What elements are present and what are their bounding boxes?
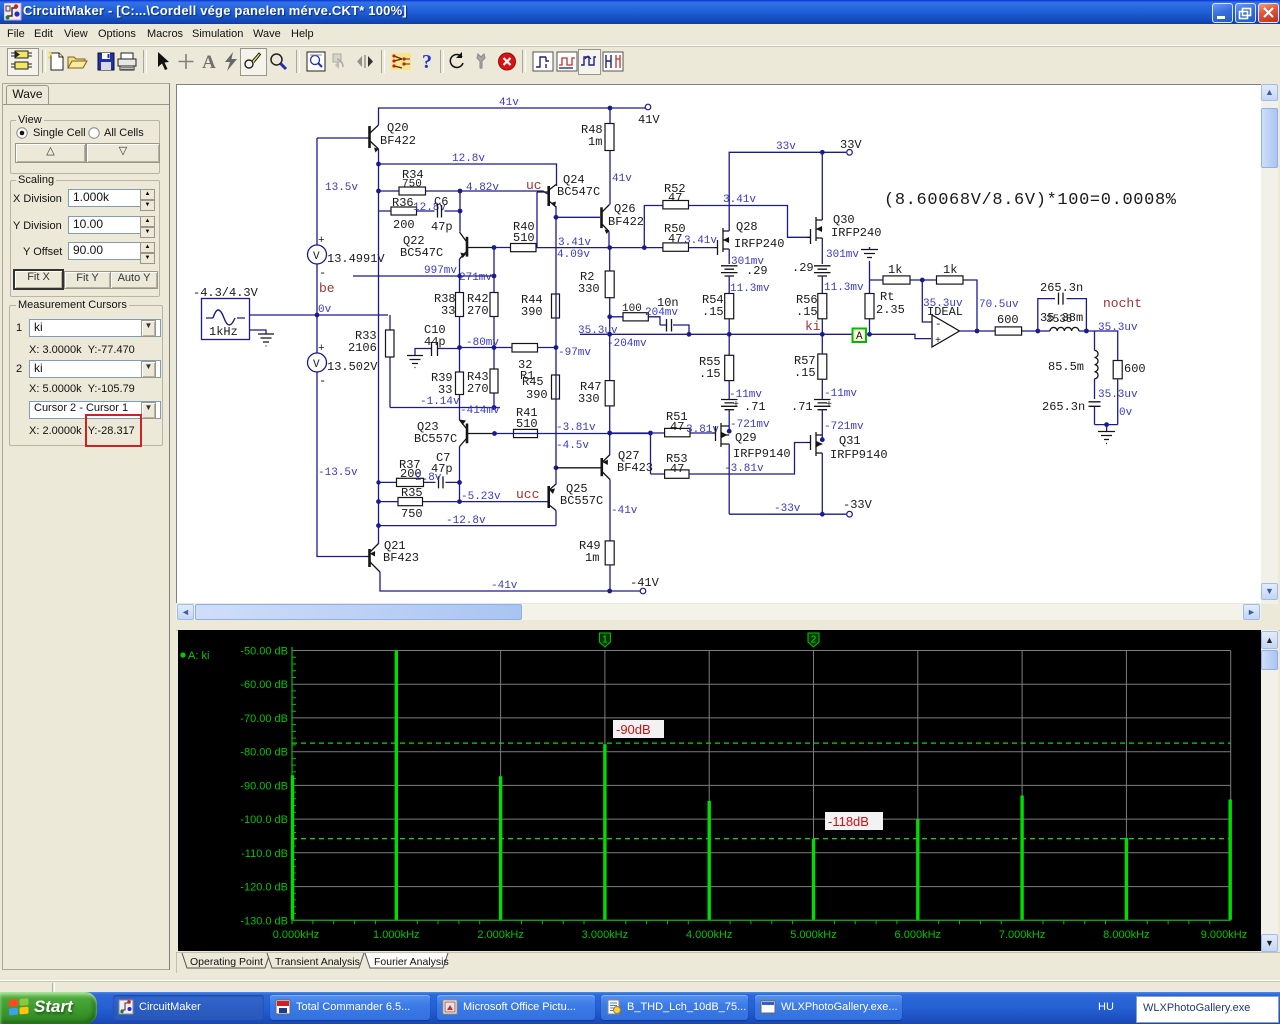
FFT gray gridlines <box>292 651 1231 921</box>
svg-text:A: ki: A: ki <box>188 650 209 662</box>
svg-text:33: 33 <box>441 304 455 318</box>
svg-text:0.000kHz: 0.000kHz <box>273 929 319 941</box>
svg-text:V: V <box>313 251 320 263</box>
label 0v <box>318 304 332 316</box>
label -12.8v <box>446 515 486 527</box>
svg-text:0v: 0v <box>1119 407 1133 419</box>
node 41v/R48 <box>608 106 613 111</box>
svg-text:390: 390 <box>526 388 548 402</box>
svg-text:-41V: -41V <box>630 576 660 590</box>
wire: Q22 base vertical to R42 <box>493 248 495 293</box>
label -1.14v <box>420 396 460 408</box>
wire: R36 C6 row <box>379 210 461 212</box>
wire: output to load <box>1086 331 1117 361</box>
svg-text:33V: 33V <box>840 138 862 152</box>
wire: Q22 emitter to R38 <box>459 259 461 293</box>
wire: R38 to -80mv row <box>459 317 461 373</box>
svg-text:47: 47 <box>670 462 684 476</box>
svg-text:44p: 44p <box>424 335 446 349</box>
start button <box>0 992 97 1024</box>
svg-text:600: 600 <box>997 313 1019 327</box>
node Q20 emitter <box>376 162 381 167</box>
node R34 left <box>376 189 381 194</box>
wire: Q25 collector down <box>555 511 557 526</box>
svg-text:4.09v: 4.09v <box>557 249 590 261</box>
svg-text:-: - <box>319 374 326 388</box>
node ki R54 <box>727 332 732 337</box>
svg-text:390: 390 <box>521 305 543 319</box>
svg-text:265.3n: 265.3n <box>1042 400 1085 414</box>
node C7 right <box>457 480 462 485</box>
resistor R55 .15 <box>699 355 734 399</box>
svg-text:-1.14v: -1.14v <box>420 396 460 408</box>
wire: Q23 collector down to C7 node <box>459 447 461 502</box>
svg-text:+: + <box>733 400 739 411</box>
node Q24 emitter / Q26 base <box>554 215 559 220</box>
svg-text:5.000kHz: 5.000kHz <box>790 929 836 941</box>
wire: input source to node be <box>250 314 389 316</box>
wire: Q31 drain down and -33v rail <box>729 453 846 514</box>
capacitor 10n <box>657 296 679 332</box>
svg-text:R36: R36 <box>392 196 414 210</box>
battery .29 Q28 <box>721 256 768 294</box>
svg-text:7.000kHz: 7.000kHz <box>999 929 1045 941</box>
transistor Q25 BC557C <box>548 482 604 511</box>
svg-text:35.3uv: 35.3uv <box>578 325 618 337</box>
resistor 1k feedback <box>937 263 964 284</box>
transistor Q24 BC547C <box>537 173 600 207</box>
svg-text:301mv: 301mv <box>826 249 859 261</box>
node R35 left <box>376 499 381 504</box>
svg-text:-33v: -33v <box>774 503 801 515</box>
svg-text:-33V: -33V <box>843 498 873 512</box>
svg-text:IRFP9140: IRFP9140 <box>830 448 888 462</box>
svg-text:-41v: -41v <box>611 505 638 517</box>
svg-text:1.000kHz: 1.000kHz <box>373 929 419 941</box>
wire: 1k feedback row <box>870 280 978 331</box>
wire: Q25 emitter to node <box>555 468 557 485</box>
resistor R42 270 <box>467 292 498 318</box>
mosfet Q29 IRFP9140 <box>712 423 791 461</box>
label -3.81v gate2 <box>724 463 764 475</box>
resistor R1 32 <box>512 344 556 384</box>
svg-text:Q20: Q20 <box>387 121 409 135</box>
wire: 33v rail <box>729 152 846 225</box>
svg-text:.15: .15 <box>702 305 724 319</box>
node ki rail x610 <box>607 332 612 337</box>
mosfet Q31 IRFP9140 <box>807 432 888 462</box>
FFT y axis minor ticks <box>292 657 296 913</box>
svg-text:10n: 10n <box>657 296 679 310</box>
svg-text:BC547C: BC547C <box>400 246 443 260</box>
svg-text:330: 330 <box>578 282 600 296</box>
label 35.3uv left <box>578 325 618 337</box>
node A marker <box>853 329 867 344</box>
svg-text:Operating Point: Operating Point <box>190 956 263 968</box>
svg-text:47p: 47p <box>431 220 453 234</box>
wire: Q28 terminals <box>728 225 730 264</box>
svg-text:BF422: BF422 <box>608 215 644 229</box>
svg-text:3.41v: 3.41v <box>684 235 717 247</box>
svg-text:+: + <box>826 400 832 411</box>
terminal -41V <box>630 576 660 594</box>
transistor Q26 BF422 <box>602 202 645 234</box>
label -97mv <box>558 347 591 359</box>
wire: C7 row <box>379 481 460 483</box>
resistor R41 510 <box>495 406 651 438</box>
label 0v load <box>1119 407 1133 419</box>
svg-text:-90.00 dB: -90.00 dB <box>240 780 288 792</box>
capacitor 265.3n top <box>1038 281 1087 331</box>
wire: Q24 base from R40 node <box>536 192 538 248</box>
label 11.3mv Q28 <box>730 283 770 295</box>
label 33v rail <box>776 141 796 153</box>
svg-text:C6: C6 <box>434 195 448 209</box>
svg-text:1k: 1k <box>888 263 902 277</box>
wire: opamp output <box>960 330 1038 332</box>
wire: ki output rail <box>580 334 931 338</box>
battery .71 Q31 <box>791 388 857 440</box>
resistor R47 330 <box>578 334 614 433</box>
svg-text:V: V <box>313 359 320 371</box>
svg-text:+: + <box>318 343 325 355</box>
wire: load bottom <box>1095 425 1118 431</box>
svg-text:510: 510 <box>513 231 535 245</box>
svg-text:R45: R45 <box>522 375 544 389</box>
label -33v rail <box>774 503 801 515</box>
svg-text:-70.00 dB: -70.00 dB <box>240 713 288 725</box>
svg-text:-: - <box>319 266 326 280</box>
svg-text:1m: 1m <box>585 551 599 565</box>
wire: Q29 drain down <box>728 444 730 514</box>
svg-text:Transient Analysis: Transient Analysis <box>275 956 360 968</box>
label -721mv Q29 <box>730 419 770 431</box>
svg-text:-11mv: -11mv <box>824 388 857 400</box>
op-amp U1 IDEAL <box>927 305 963 347</box>
label -13.5v <box>318 467 358 479</box>
node 997mv junction <box>457 274 461 278</box>
wire: Q24 collector to 12.8v <box>556 185 558 187</box>
node ki R56 <box>820 332 825 337</box>
svg-text:997mv: 997mv <box>424 265 457 277</box>
node -414mv <box>492 405 497 410</box>
node Q27 base / Q25 emitter <box>554 465 559 470</box>
FFT x axis labels <box>273 929 1247 941</box>
FFT spectrum bars <box>293 651 1231 920</box>
svg-text:33v: 33v <box>776 141 796 153</box>
svg-text:-100.0 dB: -100.0 dB <box>240 814 288 826</box>
svg-text:1k: 1k <box>943 263 957 277</box>
svg-text:.15: .15 <box>794 366 816 380</box>
svg-text:13.4991V: 13.4991V <box>327 252 385 266</box>
FFT cursor flag 1 <box>599 633 610 647</box>
node load bottom <box>1104 422 1109 427</box>
resistor R40 510 <box>511 220 537 252</box>
node -80mv b <box>492 345 497 350</box>
svg-text:-: - <box>935 319 942 331</box>
svg-text:-118dB: -118dB <box>828 814 869 829</box>
svg-text:271mv: 271mv <box>459 272 492 284</box>
label 204mv <box>645 307 678 319</box>
resistor R54 .15 <box>702 293 734 355</box>
wire: -414mv row <box>390 407 500 409</box>
wire: Q20 base row <box>317 137 366 139</box>
node R37 left <box>376 480 380 484</box>
resistor Rt 2.35 <box>865 280 905 334</box>
svg-text:4.000kHz: 4.000kHz <box>686 929 732 941</box>
svg-text:-4.5v: -4.5v <box>556 440 589 452</box>
svg-text:265.3n: 265.3n <box>1040 281 1083 295</box>
svg-text:-4.3/4.3V: -4.3/4.3V <box>193 286 259 300</box>
label 271mv <box>459 272 492 284</box>
node LC left <box>1035 329 1040 334</box>
svg-text:510: 510 <box>516 417 538 431</box>
wire: bias vertical x378.5 <box>378 164 380 526</box>
svg-text:A: A <box>202 52 216 72</box>
resistor R52 47 <box>663 182 689 209</box>
svg-text:35.3uv: 35.3uv <box>923 298 963 310</box>
svg-text:1kHz: 1kHz <box>209 325 238 339</box>
resistor R37 200 <box>397 458 424 487</box>
svg-text:.15: .15 <box>699 367 721 381</box>
svg-text:nocht: nocht <box>1103 296 1142 311</box>
svg-text:750: 750 <box>401 507 423 521</box>
wire: Q22 collector vertical <box>459 191 461 232</box>
resistor R33 2106 <box>348 315 394 408</box>
svg-text:-97mv: -97mv <box>558 347 591 359</box>
svg-text:11.3mv: 11.3mv <box>730 283 770 295</box>
resistor R39 33 <box>431 371 464 397</box>
node Q31 source <box>820 437 825 442</box>
battery .29 Q30 <box>792 249 859 294</box>
svg-text:BC547C: BC547C <box>557 185 600 199</box>
label net be <box>319 281 335 296</box>
transistor Q21 BF423 <box>366 539 419 572</box>
label 12.8v at R36 <box>413 202 446 214</box>
label -721mv Q31 <box>824 421 864 433</box>
ground for source <box>250 330 275 346</box>
label 35.3uv load <box>1098 389 1138 401</box>
svg-text:BC557C: BC557C <box>414 432 457 446</box>
node -80mv a <box>457 345 462 350</box>
label net uc <box>526 178 542 193</box>
label -41v rail <box>491 580 518 592</box>
capacitor C6 47p <box>431 195 453 234</box>
resistor R45 390 <box>522 375 560 402</box>
node 271mv junction <box>492 274 497 279</box>
label 3.41v at R52 <box>723 194 756 206</box>
transistor Q20 BF422 <box>366 121 416 153</box>
svg-text:Rt: Rt <box>880 290 894 304</box>
svg-text:-5.23v: -5.23v <box>461 491 501 503</box>
wire: ucc row <box>379 501 548 503</box>
svg-text:Q26: Q26 <box>614 202 636 216</box>
label 11.3mv Q30 <box>824 282 864 294</box>
svg-text:0v: 0v <box>318 304 332 316</box>
battery .71 Q29 <box>721 389 766 431</box>
wire: R52 branch <box>644 206 807 248</box>
node 4.82v <box>458 189 463 194</box>
svg-text:3.41v: 3.41v <box>723 194 756 206</box>
resistor R44 390 <box>521 293 560 319</box>
node output 1k <box>975 329 980 334</box>
svg-text:.71: .71 <box>744 400 766 414</box>
label net ucc <box>516 487 539 502</box>
svg-text:13.502V: 13.502V <box>327 360 378 374</box>
label -204mv <box>607 338 647 350</box>
resistor R53 47 <box>665 443 807 479</box>
svg-text:2.8v: 2.8v <box>415 472 442 484</box>
label 12.8v at C7 <box>415 472 442 484</box>
node R51 branch <box>648 431 653 436</box>
wire: 997mv row <box>353 275 494 277</box>
svg-text:Q29: Q29 <box>735 431 757 445</box>
svg-text:be: be <box>319 281 335 296</box>
node -97mv <box>554 345 559 350</box>
wire: Q21 emitter up <box>378 526 380 544</box>
svg-text:41v: 41v <box>499 97 519 109</box>
svg-text:R35: R35 <box>401 486 423 500</box>
svg-text:3.81v: 3.81v <box>686 424 719 436</box>
node -33v <box>820 512 825 517</box>
svg-text:2.000kHz: 2.000kHz <box>477 929 523 941</box>
resistor R50 47 <box>663 222 689 251</box>
wire: 100/10n branch <box>610 317 689 335</box>
label 4.09v <box>557 249 590 261</box>
svg-text:2106: 2106 <box>348 341 377 355</box>
svg-text:?: ? <box>422 51 432 72</box>
svg-text:85.5m: 85.5m <box>1048 360 1084 374</box>
svg-text:35.3uv: 35.3uv <box>1098 389 1138 401</box>
label THD equation <box>884 191 1177 210</box>
FFT cursor flag 2 <box>808 633 819 647</box>
label -3.81v row <box>556 422 596 434</box>
svg-text:.29: .29 <box>746 264 768 278</box>
label 3.41v at gate <box>684 235 717 247</box>
transistor Q23 BC557C <box>414 420 495 447</box>
label -4.5v <box>556 440 589 452</box>
wire: Q26 emitter to 3.41v row <box>608 232 610 248</box>
wire: -80mv row <box>460 347 513 349</box>
svg-text:9.000kHz: 9.000kHz <box>1201 929 1247 941</box>
svg-text:3538: 3538 <box>1046 314 1072 326</box>
svg-text:3.000kHz: 3.000kHz <box>582 929 628 941</box>
label 41v at R48 <box>612 173 632 185</box>
svg-text:47: 47 <box>668 191 682 205</box>
wire: -12.8v row <box>379 525 557 527</box>
resistor R34 750 <box>379 168 461 195</box>
resistor 600 series <box>995 313 1021 335</box>
node R36 right <box>458 209 463 214</box>
wire: Q23 emitter up <box>459 408 461 421</box>
svg-text:-414mv: -414mv <box>460 405 500 417</box>
inductor 35.38m <box>1038 311 1087 331</box>
resistor R56 .15 <box>796 293 827 334</box>
label R34 value 750 <box>402 179 422 191</box>
label -5.23v <box>461 491 501 503</box>
svg-text:A: A <box>856 331 863 343</box>
node -12.8v left <box>376 523 381 528</box>
svg-text:-110.0 dB: -110.0 dB <box>241 848 288 860</box>
svg-text:47: 47 <box>670 420 684 434</box>
svg-text:Q28: Q28 <box>736 220 758 234</box>
svg-text:BF423: BF423 <box>383 551 419 565</box>
label 85.38M overlap <box>1046 314 1072 326</box>
svg-text:.71: .71 <box>791 400 813 414</box>
node -3.81v x610 <box>607 431 612 436</box>
mosfet Q28 IRFP240 <box>714 220 784 255</box>
label net ki <box>805 319 821 334</box>
node 3.41v row x610 <box>607 245 612 250</box>
svg-text:270: 270 <box>467 304 489 318</box>
resistor 1k input <box>883 263 910 284</box>
label 3.81v gate <box>686 424 719 436</box>
svg-text:ucc: ucc <box>516 487 539 502</box>
resistor 100 <box>622 303 648 321</box>
svg-text:-90dB: -90dB <box>616 722 651 737</box>
label 35.3uv opamp <box>923 298 963 310</box>
svg-text:Fourier Analysis: Fourier Analysis <box>374 956 449 968</box>
svg-text:750: 750 <box>402 179 422 191</box>
capacitor C10 44p with ground <box>407 323 460 368</box>
svg-text:-3.81v: -3.81v <box>556 422 596 434</box>
svg-text:2.35: 2.35 <box>876 303 905 317</box>
transistor Q22 BC547C <box>400 232 494 260</box>
resistor R48 1m <box>581 108 614 205</box>
svg-text:41V: 41V <box>638 113 660 127</box>
wire: 41v rail <box>379 108 646 125</box>
svg-text:8.000kHz: 8.000kHz <box>1103 929 1149 941</box>
resistor 600 load <box>1113 361 1145 425</box>
label 41v rail <box>499 97 519 109</box>
svg-text:BC557C: BC557C <box>560 494 603 508</box>
resistor R49 1m <box>579 539 614 591</box>
mosfet Q30 IRFP240 <box>807 213 881 244</box>
svg-text:.29: .29 <box>792 261 814 275</box>
label 997mv <box>424 265 457 277</box>
label 13.5v <box>325 182 358 194</box>
resistor R38 33 <box>434 292 464 318</box>
node R50 R52 branch <box>642 245 647 250</box>
svg-text:IRFP240: IRFP240 <box>734 237 784 251</box>
svg-text:12.8v: 12.8v <box>452 153 485 165</box>
label -80mv <box>466 337 499 349</box>
svg-text:-13.5v: -13.5v <box>318 467 358 479</box>
node Q22 base / R40 <box>492 245 497 250</box>
svg-text:11.3mv: 11.3mv <box>824 282 864 294</box>
FFT y axis labels <box>240 646 288 928</box>
svg-text:-3.81v: -3.81v <box>724 463 764 475</box>
terminal -33V <box>843 498 873 517</box>
svg-text:-130.0 dB: -130.0 dB <box>240 915 288 927</box>
svg-text:2: 2 <box>811 635 817 646</box>
svg-text:IRFP240: IRFP240 <box>831 226 881 240</box>
wire: 3.41v row R40 <box>494 247 714 249</box>
resistor R35 750 <box>398 486 423 521</box>
svg-text:600: 600 <box>1124 362 1146 376</box>
FFT label -90dB <box>613 720 664 738</box>
svg-text:41v: 41v <box>612 173 632 185</box>
svg-text:-41v: -41v <box>491 580 518 592</box>
svg-text:BF422: BF422 <box>380 134 416 148</box>
svg-text:-50.00 dB: -50.00 dB <box>240 646 288 658</box>
voltmeter V13.4991 <box>308 235 386 280</box>
wire: -3.81v row <box>513 432 712 435</box>
resistor R2 330 <box>578 248 614 335</box>
node ki Rt <box>867 332 872 337</box>
wire: R42 to row <box>493 317 495 370</box>
label 35.3uv out <box>1098 322 1138 334</box>
